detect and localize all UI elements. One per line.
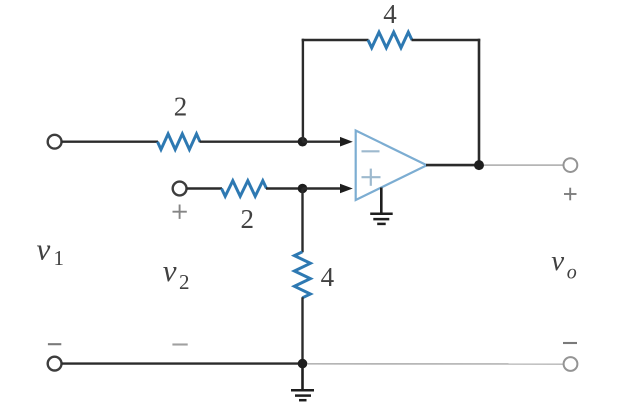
value label 4 (R4) [321, 262, 335, 292]
wire resistor R4 down to bottom rail [301, 297, 303, 363]
wire feedback riser (node up) [302, 39, 304, 142]
wire feedback drop to output node [478, 39, 481, 165]
node bottom rail junction [298, 359, 308, 369]
arrow into inverting input pin [340, 137, 353, 147]
resistor R3 value 2 (v2 branch) [222, 181, 267, 197]
svg-text:4: 4 [383, 0, 397, 29]
svg-text:2: 2 [174, 92, 188, 122]
wire feedback top left segment [302, 39, 369, 41]
plus sign v2 input polarity [173, 205, 187, 219]
minus sign v1 lower polarity [48, 343, 61, 345]
wire node to inverting arrow [303, 140, 342, 142]
svg-text:o: o [567, 261, 577, 283]
terminal vo plus output [564, 158, 578, 172]
minus sign vo lower polarity [563, 342, 577, 344]
terminal v1 input [48, 135, 62, 149]
ground (bottom rail) [291, 390, 314, 400]
op-amp U1 triangle [356, 131, 427, 201]
op-amp inverting marker (minus) [362, 150, 380, 152]
svg-text:2: 2 [240, 204, 254, 234]
wire bottom rail to vo- terminal (gray) [308, 363, 564, 365]
terminal v2 input [173, 182, 187, 196]
value label 2 (R1) [174, 92, 188, 122]
value label 2 (R3) [240, 204, 254, 234]
wire bottom ground stub [301, 364, 304, 389]
wire feedback top right segment [412, 39, 481, 41]
svg-text:v: v [37, 232, 51, 267]
ground (op-amp) [370, 214, 393, 224]
svg-text:1: 1 [54, 246, 65, 270]
terminal vo minus output [564, 357, 578, 371]
node noninverting-input junction [298, 184, 308, 194]
svg-text:4: 4 [321, 262, 335, 292]
label v1 [37, 232, 65, 271]
plus sign vo polarity [564, 188, 577, 201]
wire noninverting node down to resistor R4 [301, 189, 303, 253]
wire v1 terminal to resistor [62, 140, 158, 142]
wire op-amp output [426, 164, 479, 167]
resistor R1 value 2 (v1 branch) [158, 134, 201, 150]
svg-text:2: 2 [179, 270, 190, 294]
value label 4 (R2 feedback) [383, 0, 397, 29]
node inverting-input junction [298, 137, 308, 147]
wire resistor R3 to noninverting node [266, 187, 303, 189]
resistor R2 value 4 (feedback) [368, 32, 412, 48]
terminal v1 return (bottom left) [48, 357, 62, 371]
wire v2 terminal to resistor [187, 187, 222, 189]
node output junction [474, 160, 484, 170]
arrow into noninverting input pin [340, 184, 353, 194]
label v2 [163, 253, 190, 294]
wire node to noninverting arrow [303, 187, 342, 189]
wire op-amp ground stub [380, 188, 383, 214]
minus sign v2 lower polarity [172, 343, 187, 345]
wire bottom rail [62, 362, 303, 364]
wire output to vo+ terminal (gray) [484, 164, 564, 166]
wire resistor R1 to inverting node [200, 140, 303, 142]
resistor R4 value 4 (shunt to ground rail) [294, 252, 310, 298]
svg-text:v: v [551, 245, 564, 277]
svg-text:v: v [163, 253, 177, 288]
label vo [551, 245, 577, 283]
op-amp noninverting marker (plus) [362, 169, 381, 186]
